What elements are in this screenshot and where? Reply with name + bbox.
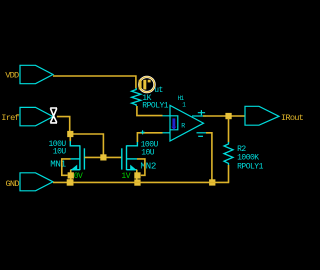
wire H1 out- down to GND rail: [206, 133, 212, 183]
wire node A to gate junction: [70, 134, 103, 156]
port Iref: [1, 107, 53, 125]
svg-text:IRout: IRout: [281, 113, 304, 123]
svg-text:RPOLY1: RPOLY1: [142, 102, 169, 111]
highlight glyphs: [139, 80, 151, 90]
junction out- GND rail: [209, 179, 215, 185]
junction MN2 source: [134, 172, 140, 178]
resistor R2: [224, 142, 233, 165]
wire MN1 bulk tie: [62, 159, 71, 175]
ccvs H1: [163, 105, 207, 141]
junction MN1 source to GND rail: [67, 179, 73, 185]
svg-text:VDD: VDD: [5, 71, 19, 81]
svg-text:10U: 10U: [141, 149, 155, 158]
resistor R0: [132, 88, 141, 106]
svg-text:ut: ut: [154, 86, 163, 95]
wire MN1 drain stub: [69, 137, 71, 141]
svg-text:1000K: 1000K: [237, 154, 259, 163]
svg-text:RPOLY1: RPOLY1: [237, 163, 264, 172]
svg-text:MN1: MN1: [50, 159, 66, 170]
wire R0 bottom to H1 plus input: [137, 106, 163, 116]
svg-text:10U: 10U: [53, 148, 67, 157]
MN1 source arrow: [70, 165, 77, 171]
highlight circle: [139, 77, 154, 92]
transistor MN1: [70, 141, 84, 170]
junction node A: [67, 131, 73, 137]
junction gate node: [100, 154, 106, 160]
marker plus on minus-input wire: [141, 130, 145, 134]
pin marker bowtie on Iref: [50, 108, 57, 123]
port IRout: [245, 106, 304, 125]
wire gate link MN1-MN2: [84, 156, 121, 158]
H1 sense arrow: [172, 118, 175, 126]
junction out node: [225, 113, 231, 119]
junction MN2 source to GND rail: [134, 179, 140, 185]
wire R2 top: [228, 118, 230, 143]
svg-text:MN2: MN2: [140, 161, 156, 172]
MN2 source arrow: [130, 165, 137, 171]
wire MN2 source down: [136, 170, 138, 183]
svg-text:GND: GND: [6, 179, 20, 189]
wire MN1 source down: [70, 170, 72, 183]
svg-text:R2: R2: [237, 145, 246, 154]
wire MN2 drain to H1 minus input: [137, 133, 162, 142]
svg-text:Iref: Iref: [1, 113, 19, 123]
wire net VDD: [53, 76, 136, 89]
H1 output minus mark: [198, 135, 203, 137]
port VDD: [5, 65, 53, 83]
wire MN2 bulk tie: [137, 159, 145, 175]
svg-text:0V: 0V: [74, 172, 83, 181]
wire R2 bottom to GND rail: [228, 165, 230, 182]
wire GND rail: [53, 181, 229, 183]
junction MN1 source: [68, 172, 74, 178]
transistor MN2: [122, 142, 138, 170]
H1 output plus mark: [198, 110, 205, 115]
svg-text:1V: 1V: [121, 172, 130, 181]
wire Iref to node A: [57, 117, 70, 133]
junction GND port wire: [67, 179, 73, 185]
port GND: [6, 173, 54, 191]
wire H1 out+ to IRout: [203, 115, 245, 117]
